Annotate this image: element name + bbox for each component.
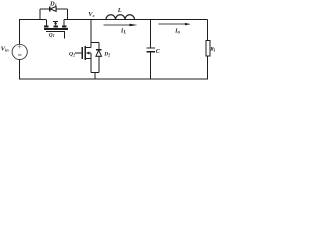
- inductor L coil: [106, 15, 135, 20]
- resistor RL box: [206, 40, 210, 56]
- transistor Q2 gate bar: [81, 47, 83, 59]
- svg-text:C: C: [156, 49, 160, 55]
- wire bottom rail: [19, 78, 208, 80]
- transistor Q1 source contact bar: [62, 26, 67, 28]
- IL arrowhead: [129, 24, 137, 27]
- transistor Q1 body stem: [55, 22, 57, 24]
- svg-text:Q1: Q1: [49, 32, 55, 38]
- capacitor C top plate: [146, 47, 155, 49]
- wire D1 branch right horizontal: [56, 8, 68, 10]
- svg-text:Q2: Q2: [69, 51, 75, 57]
- Io arrowhead: [185, 23, 191, 26]
- diode D2 triangle pointing up: [96, 50, 102, 56]
- transistor Q2 source lead: [85, 57, 91, 59]
- transistor Q1 drain contact bar: [44, 26, 49, 28]
- svg-text:L: L: [117, 7, 122, 14]
- diode D2 bottom stub: [98, 56, 100, 72]
- wire Q2 source vertical to bottom tie: [90, 53, 92, 72]
- transistor Q2 body arrow pointing left: [86, 51, 89, 54]
- wire right vertical below RL: [207, 56, 209, 79]
- wire top tie between Q2 and D2: [91, 41, 99, 43]
- transistor Q1 body stem bar: [53, 21, 58, 23]
- diode D2 cathode bar: [96, 49, 102, 51]
- diode D1 right stub: [67, 9, 69, 20]
- svg-text:IL: IL: [120, 28, 126, 36]
- transistor Q1 source stub: [63, 20, 65, 26]
- svg-text:D1: D1: [49, 1, 57, 8]
- wire top rail right segment: [64, 19, 208, 21]
- wire Io arrow shaft: [158, 23, 185, 25]
- diode D1 left stub: [39, 9, 41, 20]
- transistor Q1 drain stub: [46, 20, 48, 26]
- transistor Q1 middle contact bar: [53, 26, 58, 28]
- svg-text:Vin: Vin: [1, 45, 10, 52]
- svg-text:RL: RL: [209, 46, 215, 52]
- transistor Q2 drain lead: [85, 47, 91, 49]
- diode D1 triangle pointing left: [50, 6, 56, 11]
- svg-text:Io: Io: [174, 27, 180, 35]
- wire IL arrow shaft: [103, 24, 130, 26]
- svg-text:Vx: Vx: [88, 11, 95, 18]
- transistor Q1 body arrow pointing down: [54, 23, 57, 26]
- svg-text:D2: D2: [103, 52, 110, 58]
- diode D2 top stub: [98, 42, 100, 50]
- wire bottom tie between Q2 and D2: [91, 71, 99, 73]
- diode D1 cathode bar: [49, 6, 51, 11]
- Vin polarity plus sign: [18, 45, 21, 55]
- transistor Q2 body lead: [89, 52, 91, 54]
- Vin polarity minus sign: [18, 54, 21, 56]
- wire left vertical from top rail down to source top: [18, 19, 20, 44]
- capacitor C branch lower: [150, 52, 152, 79]
- transistor Q1 gate lead: [46, 31, 65, 38]
- transistor Q1 gate bar: [44, 28, 68, 30]
- wire D1 branch left horizontal: [40, 8, 50, 10]
- transistor Q2 channel bar: [84, 46, 86, 60]
- voltage source Vin circle: [12, 44, 27, 59]
- capacitor C branch upper: [150, 20, 152, 49]
- wire top rail left segment: [19, 19, 46, 21]
- wire stub from tie down to ground rail: [94, 72, 96, 79]
- capacitor C bottom plate: [146, 51, 155, 53]
- wire Vx riser from rail to Q2 drain: [90, 20, 92, 48]
- transistor Q2 gate lead: [75, 52, 82, 54]
- wire left vertical from source bottom to bottom rail: [18, 60, 20, 80]
- wire right vertical above RL: [207, 20, 209, 41]
